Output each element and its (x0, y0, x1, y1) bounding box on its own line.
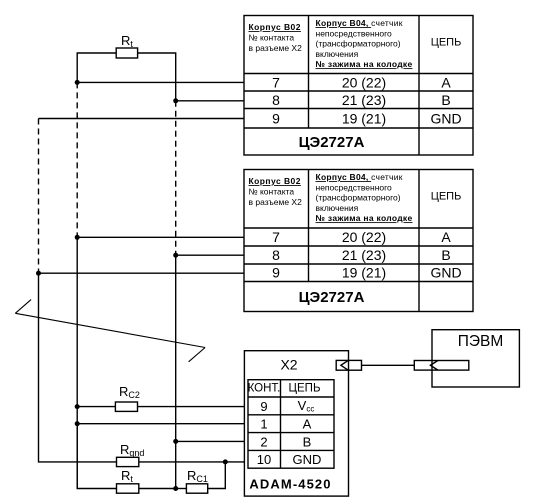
svg-text:№ зажима на колодке: № зажима на колодке (316, 59, 413, 69)
junction table1 A (75, 80, 80, 85)
connector XP2 chevron (430, 361, 438, 371)
svg-text:Rgnd: Rgnd (120, 442, 144, 458)
svg-text:Корпус В04, счетчик: Корпус В04, счетчик (316, 172, 403, 182)
svg-text:непосредственного: непосредственного (316, 28, 393, 38)
svg-text:19 (21): 19 (21) (342, 265, 386, 281)
svg-text:№ контакта: № контакта (249, 33, 295, 43)
wire A to ADAM pin1 (77, 423, 244, 425)
connector plug XP1 at ADAM (336, 360, 361, 370)
wire RC1 right lead up to GND wire (208, 462, 226, 489)
ADAM header bottom line (248, 396, 334, 398)
wire serial cable (362, 364, 415, 366)
svg-text:включения: включения (316, 203, 359, 213)
svg-text:в разъеме Х2: в разъеме Х2 (249, 197, 303, 207)
svg-text:GND: GND (293, 452, 322, 467)
svg-text:B: B (303, 434, 312, 449)
svg-text:21 (23): 21 (23) (342, 247, 386, 263)
junction table2 A (75, 235, 80, 240)
svg-text:21 (23): 21 (23) (342, 92, 386, 108)
ADAM inner table border (248, 380, 334, 469)
svg-text:ЦЕПЬ: ЦЕПЬ (431, 191, 462, 203)
junction pin1-A (75, 421, 80, 426)
svg-text:Корпус В02: Корпус В02 (249, 176, 301, 186)
svg-text:Корпус В02: Корпус В02 (249, 22, 301, 32)
svg-text:A: A (441, 74, 451, 90)
table1 footer line (244, 127, 473, 129)
svg-text:непосредственного: непосредственного (316, 182, 393, 192)
wire RC1 left lead from B (176, 488, 187, 490)
table1 column divider 2 (418, 16, 420, 156)
wire RC2 right lead to Vcc pin9 (138, 406, 245, 408)
svg-text:9: 9 (272, 110, 280, 126)
resistor RC2 (115, 402, 137, 411)
svg-text:10: 10 (257, 452, 271, 467)
junction table2 B (173, 253, 178, 258)
wire Rt-bottom left lead from A (77, 424, 116, 489)
table1 header bottom line (244, 73, 473, 75)
svg-text:Rt: Rt (121, 33, 133, 49)
table2 ЦЭ2727А outer border (244, 170, 473, 312)
table2 column divider 2 (418, 170, 420, 312)
resistor Rgnd (117, 457, 139, 466)
table2 footer line (244, 281, 473, 283)
table1 row line 1 (244, 90, 473, 92)
table2 column divider 1 (308, 170, 310, 282)
svg-text:включения: включения (316, 49, 359, 59)
svg-text:ПЭВМ: ПЭВМ (458, 333, 504, 350)
svg-text:ADAM-4520: ADAM-4520 (249, 476, 331, 491)
svg-text:B: B (441, 247, 450, 263)
svg-text:(трансформаторного): (трансформаторного) (316, 39, 401, 49)
svg-text:19 (21): 19 (21) (342, 110, 386, 126)
resistor R2 (Rt bottom terminator) (117, 484, 139, 493)
svg-text:ЦЭ2727А: ЦЭ2727А (299, 289, 365, 306)
wire GND to table1 pin9 (39, 118, 245, 120)
ADAM row line 2 (248, 432, 334, 434)
svg-text:20 (22): 20 (22) (342, 229, 386, 245)
wire Rt-bottom right lead to B (139, 488, 176, 490)
table2 row line 1 (244, 245, 473, 247)
wire GND dashed trunk (38, 119, 40, 274)
svg-text:7: 7 (272, 74, 280, 90)
wire Rgnd right lead to ADAM pin10 (139, 461, 245, 463)
svg-text:8: 8 (272, 247, 280, 263)
wire GND to table2 pin9 (39, 272, 245, 274)
wire Rt-top right lead (138, 53, 176, 101)
wire Rgnd left lead to GND trunk (39, 273, 117, 462)
junction table1 B (173, 98, 178, 103)
junction pin2-B (173, 439, 178, 444)
svg-text:ЦЕПЬ: ЦЕПЬ (431, 37, 462, 49)
svg-text:GND: GND (430, 265, 461, 281)
junction RC1-GND (223, 459, 228, 464)
ADAM row line 3 (248, 449, 334, 451)
wire A to table1 pin7 (77, 81, 244, 83)
wire B to table2 pin8 (176, 254, 244, 256)
table1 ЦЭ2727А outer border (244, 16, 473, 156)
wire B dashed trunk (175, 101, 177, 255)
svg-text:ЦЕПЬ: ЦЕПЬ (289, 383, 321, 395)
svg-text:A: A (441, 229, 451, 245)
table1 column divider 1 (308, 16, 310, 129)
svg-text:Х2: Х2 (280, 357, 297, 373)
ADAM inner column divider (280, 380, 282, 469)
PC box ПЭВМ (432, 330, 519, 387)
svg-text:RC1: RC1 (187, 468, 208, 484)
wire A lower trunk (76, 237, 78, 488)
connector plug XP2 at PC (414, 361, 469, 371)
table2 header bottom line (244, 227, 473, 229)
svg-text:1: 1 (260, 417, 267, 432)
svg-text:(трансформаторного): (трансформаторного) (316, 193, 401, 203)
svg-text:КОНТ.: КОНТ. (248, 383, 281, 395)
junction Rt-RC1-B (173, 486, 178, 491)
resistor R1 (Rt top terminator) (116, 48, 137, 58)
svg-text:9: 9 (260, 399, 267, 414)
svg-text:B: B (441, 92, 450, 108)
svg-text:в разъеме Х2: в разъеме Х2 (249, 43, 303, 53)
wire A to table2 pin7 (77, 236, 244, 238)
wire A dashed trunk (76, 82, 78, 237)
wire B to table1 pin8 (176, 100, 244, 102)
svg-text:2: 2 (260, 434, 267, 449)
wire B to ADAM pin2 (176, 440, 245, 442)
svg-text:RC2: RC2 (119, 384, 140, 400)
ADAM row line 1 (248, 414, 334, 416)
connector XP1 chevron (341, 360, 348, 370)
svg-text:№ зажима на колодке: № зажима на колодке (316, 213, 413, 223)
svg-text:Корпус В04, счетчик: Корпус В04, счетчик (316, 18, 403, 28)
junction table2 GND (36, 271, 41, 276)
table1 row line 2 (244, 108, 473, 110)
svg-text:ЦЭ2727А: ЦЭ2727А (299, 134, 365, 151)
svg-text:8: 8 (272, 92, 280, 108)
svg-text:GND: GND (430, 110, 461, 126)
svg-text:9: 9 (272, 265, 280, 281)
svg-text:№ контакта: № контакта (249, 187, 295, 197)
svg-text:20 (22): 20 (22) (342, 74, 386, 90)
table2 row line 2 (244, 263, 473, 265)
wire B lower trunk (175, 255, 177, 488)
svg-text:7: 7 (272, 229, 280, 245)
cable break symbol (15, 300, 205, 362)
wire RC2 left lead to A (77, 406, 115, 408)
wire Rt-top left lead (77, 53, 116, 82)
junction RC2-A (75, 404, 80, 409)
svg-text:A: A (303, 417, 312, 432)
resistor RC1 (186, 484, 207, 493)
svg-text:Rt: Rt (121, 468, 133, 484)
converter U1 ADAM-4520 outer box (244, 351, 348, 496)
